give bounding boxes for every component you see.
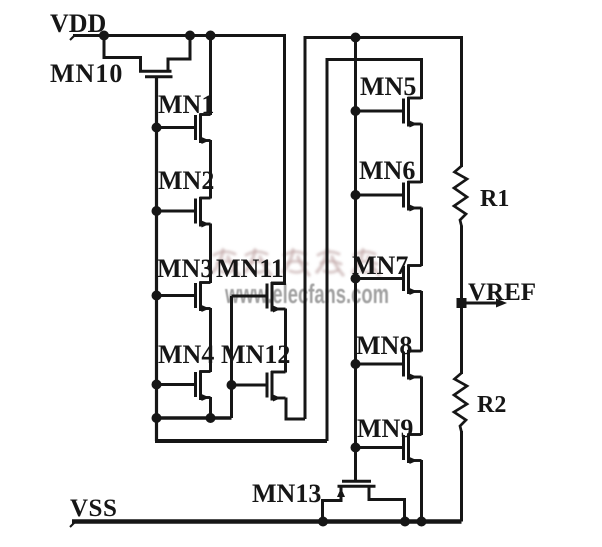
svg-text:MN4: MN4 [158,340,214,369]
svg-text:MN1: MN1 [158,90,214,119]
svg-text:MN11: MN11 [216,254,284,283]
svg-text:MN7: MN7 [352,251,408,280]
svg-text:MN5: MN5 [360,72,416,101]
svg-text:MN8: MN8 [356,331,412,360]
svg-text:MN3: MN3 [157,254,213,283]
svg-text:R1: R1 [480,186,509,212]
svg-text:www.elecfans.com: www.elecfans.com [224,279,389,309]
svg-text:VDD: VDD [50,9,106,38]
svg-text:MN2: MN2 [158,166,214,195]
svg-text:MN9: MN9 [357,414,413,443]
svg-text:VSS: VSS [70,495,117,522]
svg-text:MN6: MN6 [359,156,415,185]
svg-text:MN10: MN10 [50,59,123,88]
svg-text:MN12: MN12 [221,340,290,369]
svg-text:VREF: VREF [468,279,536,306]
svg-text:MN13: MN13 [252,479,321,508]
svg-text:R2: R2 [477,392,506,418]
